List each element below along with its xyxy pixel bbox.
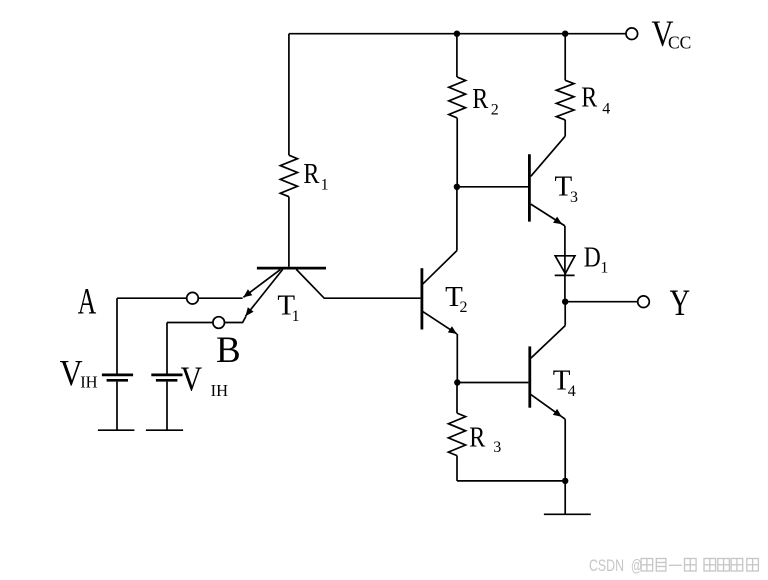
svg-text:IH: IH (80, 373, 97, 392)
svg-text:@: @ (631, 556, 642, 575)
svg-text:1: 1 (321, 176, 329, 193)
diode D1 (555, 256, 575, 276)
wire: R3 bottom to ground node (457, 480, 565, 482)
resistor R1 (280, 34, 297, 267)
wire: T2 emitter down to R3 node (456, 334, 458, 383)
transistor T1 (multi-emitter) base bar (257, 267, 326, 270)
terminal VCC (open circle) (626, 28, 638, 40)
svg-text:3: 3 (570, 189, 578, 206)
wire: input A horizontal (117, 297, 187, 299)
wire: node down to T2 collector (456, 187, 458, 251)
terminal A (open circle) (187, 292, 199, 304)
wire: input B horizontal (167, 322, 213, 324)
svg-text:2: 2 (460, 299, 468, 316)
wire: T4 emitter down to ground node (564, 419, 566, 481)
transistor T2 (422, 251, 457, 334)
terminal Y (open circle) (638, 296, 650, 308)
svg-text:B: B (216, 330, 241, 371)
wire: terminal B to T1 emitter (225, 316, 246, 322)
transistor T1 emitter 2 (to input B) (246, 269, 283, 316)
svg-text:3: 3 (493, 439, 501, 456)
svg-text:R: R (472, 83, 489, 115)
svg-text:Y: Y (670, 283, 691, 324)
svg-text:R: R (469, 421, 486, 453)
svg-text:4: 4 (602, 100, 610, 117)
watermark CSDN (589, 556, 642, 575)
resistor R4 (556, 34, 574, 137)
battery VIH 2 (input B source) (151, 375, 182, 430)
resistor R3 (448, 383, 465, 481)
resistor R2 (449, 34, 466, 187)
wire: node to T4 base (457, 382, 528, 384)
svg-text:CSDN: CSDN (589, 556, 624, 575)
junction node: Y output (562, 299, 568, 305)
svg-text:R: R (303, 158, 320, 190)
ground symbol (544, 481, 591, 514)
terminal B (open circle) (213, 317, 225, 329)
wire: terminal A to T1 emitter (198, 297, 242, 299)
svg-text:A: A (78, 282, 97, 323)
wire: VCC top rail (289, 33, 626, 35)
wire: Y node to terminal (565, 301, 638, 303)
junction node: T2 emitter / R3 / T4 base (454, 379, 460, 385)
junction node: R2 / T3 base / T2 collector (454, 184, 460, 190)
svg-text:D: D (584, 241, 601, 273)
wire: T3 base from R2 node (457, 186, 528, 188)
ground bar (input A source) (98, 429, 134, 431)
wire: T1 collector to T2 base (296, 269, 420, 298)
svg-text:1: 1 (600, 260, 608, 277)
watermark CJK glyphs (approximated) (641, 559, 758, 572)
wire: T4 collector to Y node (564, 302, 566, 326)
battery VIH 1 (input A source) (102, 375, 133, 430)
transistor T1 emitter 1 (to input A) (243, 269, 280, 297)
svg-text:IH: IH (211, 381, 228, 400)
svg-text:1: 1 (292, 308, 300, 325)
svg-text:V: V (181, 360, 203, 398)
junction node: top rail / R2 (454, 31, 460, 37)
transistor T4 (530, 326, 565, 420)
wire: input B vertical to source (166, 323, 168, 374)
transistor T3 (529, 136, 565, 226)
junction node: top rail / R4 (562, 31, 568, 37)
svg-text:R: R (581, 82, 598, 114)
wire: T3 emitter to diode and Y node (564, 226, 566, 302)
svg-text:CC: CC (668, 32, 691, 52)
junction node: ground (562, 478, 568, 484)
ground bar (input B source) (146, 429, 183, 431)
wire: input A vertical to source (116, 298, 118, 373)
svg-text:2: 2 (491, 101, 499, 118)
svg-text:4: 4 (568, 383, 576, 400)
